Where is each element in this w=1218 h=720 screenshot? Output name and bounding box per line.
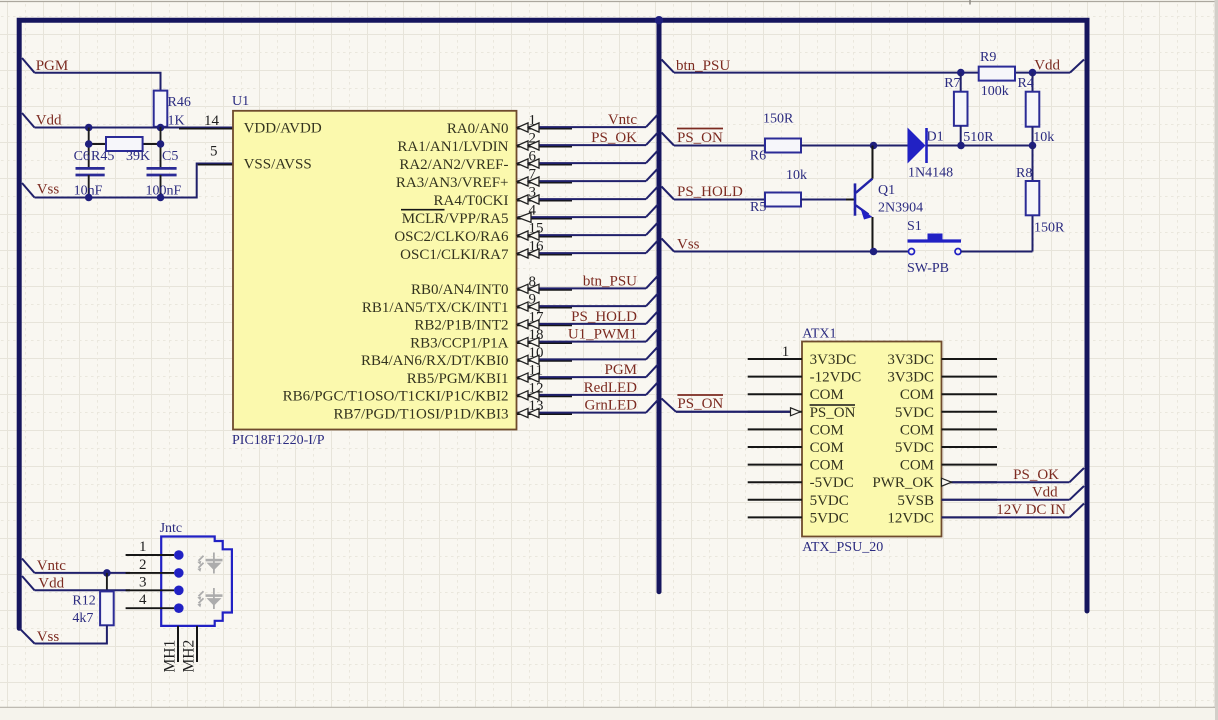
svg-text:RB2/P1B/INT2: RB2/P1B/INT2 xyxy=(414,318,508,334)
svg-text:3: 3 xyxy=(139,574,147,590)
svg-text:PS_HOLD: PS_HOLD xyxy=(571,309,637,325)
grey LED glyph xyxy=(197,588,222,609)
svg-text:PS_OK: PS_OK xyxy=(591,130,637,146)
svg-text:14: 14 xyxy=(204,113,220,129)
wire R5 to Q1 base xyxy=(801,199,848,201)
pin 15 OSC2/CLKO/RA6 xyxy=(517,236,572,238)
ATX1 left pin 9 5VDC xyxy=(748,499,802,501)
svg-text:10k: 10k xyxy=(1033,130,1054,145)
svg-text:PS_HOLD: PS_HOLD xyxy=(677,184,743,200)
wire C6 branch down xyxy=(88,128,90,169)
svg-text:PGM: PGM xyxy=(604,362,637,378)
mounting hole pin MH1 xyxy=(177,626,179,662)
ATX1 right pin 3V3DC xyxy=(942,358,998,360)
Jntc pin 4 xyxy=(126,607,174,609)
junction R7 bottom xyxy=(957,142,965,150)
wire Vss from bus xyxy=(662,239,675,252)
ATX1 left pin 2 -12VDC xyxy=(748,376,802,378)
svg-text:4k7: 4k7 xyxy=(72,611,93,626)
svg-text:RB7/PGD/T1OSI/P1D/KBI3: RB7/PGD/T1OSI/P1D/KBI3 xyxy=(333,406,508,422)
svg-text:Vdd: Vdd xyxy=(1034,58,1060,74)
wire C5 branch down xyxy=(160,127,162,169)
svg-text:5VDC: 5VDC xyxy=(810,510,849,526)
svg-text:COM: COM xyxy=(900,422,934,438)
junction Vss-C6 xyxy=(85,194,93,202)
op-amp U1 body (PIC18F1220) xyxy=(233,111,517,430)
svg-text:1: 1 xyxy=(139,539,147,555)
svg-text:GrnLED: GrnLED xyxy=(585,398,638,414)
svg-text:MCLR/VPP/RA5: MCLR/VPP/RA5 xyxy=(402,211,509,227)
Jntc pin 2 xyxy=(126,572,174,574)
wire Q1 collector xyxy=(872,146,874,179)
svg-text:Vntc: Vntc xyxy=(37,558,66,574)
svg-text:100k: 100k xyxy=(981,84,1009,99)
wire Vdd to Jntc pin 3 xyxy=(35,589,131,591)
svg-text:1N4148: 1N4148 xyxy=(908,166,953,181)
svg-text:17: 17 xyxy=(529,309,545,325)
junction Vdd-R46 xyxy=(157,124,165,132)
svg-text:RA0/AN0: RA0/AN0 xyxy=(447,121,509,137)
svg-text:R9: R9 xyxy=(980,50,996,65)
svg-text:Q1: Q1 xyxy=(878,183,895,198)
svg-text:Vdd: Vdd xyxy=(38,576,64,592)
svg-text:RA4/T0CKI: RA4/T0CKI xyxy=(434,193,509,209)
junction bus top xyxy=(655,16,663,24)
wire Vdd to U1 pin 14 xyxy=(35,127,234,129)
ATX1 left pin 8 -5VDC xyxy=(748,481,802,483)
port Vss stub xyxy=(22,183,35,198)
wire harness border left-top-right xyxy=(19,20,1087,628)
wire Vntc xyxy=(35,572,131,574)
pin 11 RB5/PGM/KBI1 xyxy=(517,378,572,380)
port Vdd stub bottom xyxy=(22,576,35,590)
svg-text:39K: 39K xyxy=(126,149,150,164)
svg-text:-5VDC: -5VDC xyxy=(810,475,854,491)
svg-text:8: 8 xyxy=(529,274,537,290)
switch S1 SW-PB xyxy=(909,249,915,255)
pin 1 RA0/AN0 xyxy=(517,128,572,130)
wire PGM to R46 xyxy=(35,73,161,91)
svg-text:12VDC: 12VDC xyxy=(887,510,934,526)
pin 10 RB4/AN6/RX/DT/KBI0 xyxy=(517,360,572,362)
transistor Q1 xyxy=(854,183,857,215)
resistor R8 xyxy=(1032,146,1034,182)
junction btn_PSU R7 xyxy=(957,69,965,77)
wire S1 to R8 xyxy=(961,251,1033,253)
svg-text:10: 10 xyxy=(529,345,544,361)
port Vdd stub xyxy=(22,113,35,128)
svg-text:10k: 10k xyxy=(786,168,807,183)
svg-text:PS_ON: PS_ON xyxy=(677,130,723,146)
svg-text:R46: R46 xyxy=(168,95,191,110)
pin 13 RB7/PGD/T1OSI/P1D/KBI3 xyxy=(517,413,572,415)
ATX1 left pin 1 3V3DC xyxy=(748,358,802,360)
wire Q1 emitter xyxy=(872,217,874,252)
svg-text:U1_PWM1: U1_PWM1 xyxy=(568,327,637,343)
ATX1 left pin 3 COM xyxy=(748,393,802,395)
svg-text:-12VDC: -12VDC xyxy=(810,370,862,386)
sheet right edge band xyxy=(1215,0,1218,720)
svg-text:16: 16 xyxy=(529,239,545,255)
svg-text:5VDC: 5VDC xyxy=(895,405,934,421)
ATX1 right pin 3V3DC xyxy=(942,376,998,378)
svg-text:PWR_OK: PWR_OK xyxy=(872,475,934,491)
svg-text:5VSB: 5VSB xyxy=(897,493,934,509)
wire 12V DC IN to right bus xyxy=(942,516,1070,518)
wire btn_PSU from bus xyxy=(662,60,675,73)
pin 18 RB3/CCP1/P1A xyxy=(517,342,572,344)
ATX1 left pin 4 PS_ON xyxy=(748,411,802,413)
svg-text:RA3/AN3/VREF+: RA3/AN3/VREF+ xyxy=(396,175,509,191)
ATX1 left pin 7 COM xyxy=(748,464,802,466)
connector Jntc body xyxy=(161,537,232,626)
svg-text:150R: 150R xyxy=(763,112,794,127)
svg-text:S1: S1 xyxy=(907,219,922,234)
junction R4 bottom xyxy=(1029,142,1037,150)
svg-text:5: 5 xyxy=(210,144,218,160)
resistor R6 xyxy=(765,139,801,153)
mounting hole pin MH2 xyxy=(196,626,198,662)
port Vntc stub xyxy=(22,559,35,573)
svg-text:Vntc: Vntc xyxy=(608,112,638,128)
svg-text:1K: 1K xyxy=(168,114,185,129)
wire Vdd 5VSB to right bus xyxy=(942,499,1070,501)
ATX1 right pin 5VDC xyxy=(942,446,998,448)
pin 7 RA3/AN3/VREF+ xyxy=(517,182,572,184)
svg-text:2N3904: 2N3904 xyxy=(878,201,923,216)
ATX1 right pin COM xyxy=(942,428,998,430)
svg-text:11: 11 xyxy=(529,363,543,379)
grey LED glyph xyxy=(197,553,222,574)
svg-text:Vdd: Vdd xyxy=(36,113,62,129)
ATX1 right pin 12VDC xyxy=(942,516,998,518)
junction Vdd-C6 xyxy=(85,124,93,132)
wire btn_PSU R9 to Vdd xyxy=(1015,72,1070,74)
svg-text:5VDC: 5VDC xyxy=(810,493,849,509)
svg-text:Vss: Vss xyxy=(37,182,60,198)
junction Vntc R12 xyxy=(103,569,111,577)
svg-text:4: 4 xyxy=(139,592,147,608)
svg-text:VDD/AVDD: VDD/AVDD xyxy=(244,121,322,137)
svg-text:R7: R7 xyxy=(944,76,960,91)
wire PS_ON from bus xyxy=(662,133,675,146)
ATX1 left pin 10 5VDC xyxy=(748,516,802,518)
resistor R7 xyxy=(960,73,962,92)
wire PS_ON to ATX1 from bus xyxy=(662,399,677,412)
resistor R12 xyxy=(100,591,114,625)
svg-text:15: 15 xyxy=(529,221,544,237)
svg-text:C6: C6 xyxy=(74,149,90,164)
svg-text:COM: COM xyxy=(810,387,844,403)
svg-text:7: 7 xyxy=(529,167,537,183)
svg-text:2: 2 xyxy=(529,131,537,147)
pin output arrow PWR_OK xyxy=(942,478,952,486)
svg-text:1: 1 xyxy=(782,344,790,360)
svg-text:OSC2/CLKO/RA6: OSC2/CLKO/RA6 xyxy=(394,229,509,245)
svg-text:3V3DC: 3V3DC xyxy=(887,352,934,368)
svg-text:3V3DC: 3V3DC xyxy=(887,370,934,386)
pin 9 RB1/AN5/TX/CK/INT1 xyxy=(517,307,572,309)
capacitor C6 xyxy=(76,167,105,170)
bus vertical center xyxy=(657,20,662,592)
svg-text:btn_PSU: btn_PSU xyxy=(676,58,730,74)
pin 2 RA1/AN1/LVDIN xyxy=(517,146,572,148)
junction Vss-C5 xyxy=(157,194,165,202)
svg-text:PS_ON: PS_ON xyxy=(810,405,856,421)
svg-text:ATX_PSU_20: ATX_PSU_20 xyxy=(802,540,883,555)
svg-text:RB1/AN5/TX/CK/INT1: RB1/AN5/TX/CK/INT1 xyxy=(362,300,509,316)
wire PS_ON into ATX1 with input arrow xyxy=(676,411,791,413)
ATX1 right pin 5VSB xyxy=(942,499,998,501)
svg-text:COM: COM xyxy=(810,458,844,474)
svg-text:RB3/CCP1/P1A: RB3/CCP1/P1A xyxy=(410,335,509,351)
svg-text:R5: R5 xyxy=(750,200,766,215)
svg-text:PS_OK: PS_OK xyxy=(1013,467,1059,483)
wire Vntc down to R12 xyxy=(106,573,108,592)
svg-text:3V3DC: 3V3DC xyxy=(810,352,857,368)
pin 6 RA2/AN2/VREF- xyxy=(517,164,572,166)
pin 12 RB6/PGC/T1OSO/T1CKI/P1C/KBI2 xyxy=(517,395,572,397)
wire D1 to R4/R8 node xyxy=(928,145,1033,147)
svg-text:510R: 510R xyxy=(963,130,994,145)
ATX1 left pin 5 COM xyxy=(748,428,802,430)
wire PS_HOLD from bus xyxy=(662,187,675,200)
svg-text:Jntc: Jntc xyxy=(160,521,183,536)
capacitor C5 xyxy=(147,167,177,170)
svg-text:COM: COM xyxy=(810,422,844,438)
ATX1 right pin PWR_OK xyxy=(942,481,998,483)
ATX1 left pin 6 COM xyxy=(748,446,802,448)
ATX1 right pin COM xyxy=(942,393,998,395)
pin 3 RA4/T0CKI xyxy=(517,200,572,202)
svg-text:D1: D1 xyxy=(927,130,944,145)
svg-text:12V DC IN: 12V DC IN xyxy=(996,502,1066,518)
wire PS_OK to right bus xyxy=(952,481,1070,483)
diode D1 xyxy=(908,128,926,164)
resistor R5 xyxy=(765,193,801,207)
svg-text:5VDC: 5VDC xyxy=(895,440,934,456)
junction Vdd R4 xyxy=(1029,69,1037,77)
svg-text:1: 1 xyxy=(529,113,537,129)
svg-text:C5: C5 xyxy=(162,149,178,164)
svg-text:SW-PB: SW-PB xyxy=(907,261,949,276)
svg-text:PGM: PGM xyxy=(36,58,69,74)
svg-text:2: 2 xyxy=(139,557,147,573)
svg-text:PIC18F1220-I/P: PIC18F1220-I/P xyxy=(232,433,325,448)
port PGM stub xyxy=(22,58,35,73)
svg-text:MH2: MH2 xyxy=(181,640,198,673)
svg-text:COM: COM xyxy=(900,458,934,474)
svg-text:RedLED: RedLED xyxy=(584,380,637,396)
svg-text:U1: U1 xyxy=(232,94,249,109)
junction emitter Vss xyxy=(870,248,878,256)
svg-text:R45: R45 xyxy=(91,149,114,164)
svg-text:150R: 150R xyxy=(1034,221,1065,236)
svg-text:RB4/AN6/RX/DT/KBI0: RB4/AN6/RX/DT/KBI0 xyxy=(361,353,509,369)
ATX1 right pin 5VDC xyxy=(942,411,998,413)
svg-text:4: 4 xyxy=(529,203,537,219)
svg-text:RB0/AN4/INT0: RB0/AN4/INT0 xyxy=(411,282,509,298)
svg-text:Vss: Vss xyxy=(677,237,700,253)
svg-text:R12: R12 xyxy=(72,594,95,609)
svg-text:9: 9 xyxy=(529,292,537,308)
svg-text:COM: COM xyxy=(900,387,934,403)
svg-text:R6: R6 xyxy=(750,149,766,164)
svg-text:RA1/AN1/LVDIN: RA1/AN1/LVDIN xyxy=(397,139,508,155)
svg-text:MH1: MH1 xyxy=(162,640,179,673)
svg-text:R8: R8 xyxy=(1016,166,1032,181)
svg-text:RA2/AN2/VREF-: RA2/AN2/VREF- xyxy=(399,157,508,173)
wire Vss to U1 pin 5 xyxy=(35,164,234,198)
junction R45 right xyxy=(157,140,165,148)
svg-text:OSC1/CLKI/RA7: OSC1/CLKI/RA7 xyxy=(400,247,509,263)
svg-text:6: 6 xyxy=(529,149,537,165)
resistor R46 xyxy=(154,91,168,127)
svg-text:18: 18 xyxy=(529,327,544,343)
resistor R45 xyxy=(89,143,106,145)
junction R45 left xyxy=(85,140,93,148)
svg-text:13: 13 xyxy=(529,398,544,414)
port Vss stub bottom xyxy=(20,628,35,643)
svg-text:R4: R4 xyxy=(1018,76,1034,91)
sheet bottom edge line xyxy=(0,706,1215,708)
junction collector node xyxy=(870,142,878,150)
pin 16 OSC1/CLKI/RA7 xyxy=(517,254,572,256)
resistor R9 xyxy=(979,67,1015,81)
svg-text:VSS/AVSS: VSS/AVSS xyxy=(244,157,312,173)
wire R12 to Vss xyxy=(35,625,107,643)
connector ATX1 body xyxy=(802,342,942,537)
pin 17 RB2/P1B/INT2 xyxy=(517,324,572,326)
pin 4 MCLR/VPP/RA5 xyxy=(517,218,572,220)
svg-text:btn_PSU: btn_PSU xyxy=(583,273,637,289)
svg-text:RB6/PGC/T1OSO/T1CKI/P1C/KBI2: RB6/PGC/T1OSO/T1CKI/P1C/KBI2 xyxy=(283,389,509,405)
Jntc pin 3 xyxy=(126,589,174,591)
sheet top edge line xyxy=(0,1,1218,3)
svg-text:12: 12 xyxy=(529,380,544,396)
svg-text:ATX1: ATX1 xyxy=(802,327,836,342)
wire R6 to D1 xyxy=(801,145,908,147)
resistor R4 xyxy=(1032,73,1034,92)
svg-text:Vdd: Vdd xyxy=(1032,485,1058,501)
svg-text:PS_ON: PS_ON xyxy=(677,396,723,412)
ATX1 right pin COM xyxy=(942,464,998,466)
svg-text:RB5/PGM/KBI1: RB5/PGM/KBI1 xyxy=(407,371,509,387)
svg-text:Vss: Vss xyxy=(37,629,60,645)
pin 8 RB0/AN4/INT0 xyxy=(517,289,572,291)
svg-text:3: 3 xyxy=(529,185,537,201)
Jntc pin 1 xyxy=(126,554,174,556)
svg-text:COM: COM xyxy=(810,440,844,456)
